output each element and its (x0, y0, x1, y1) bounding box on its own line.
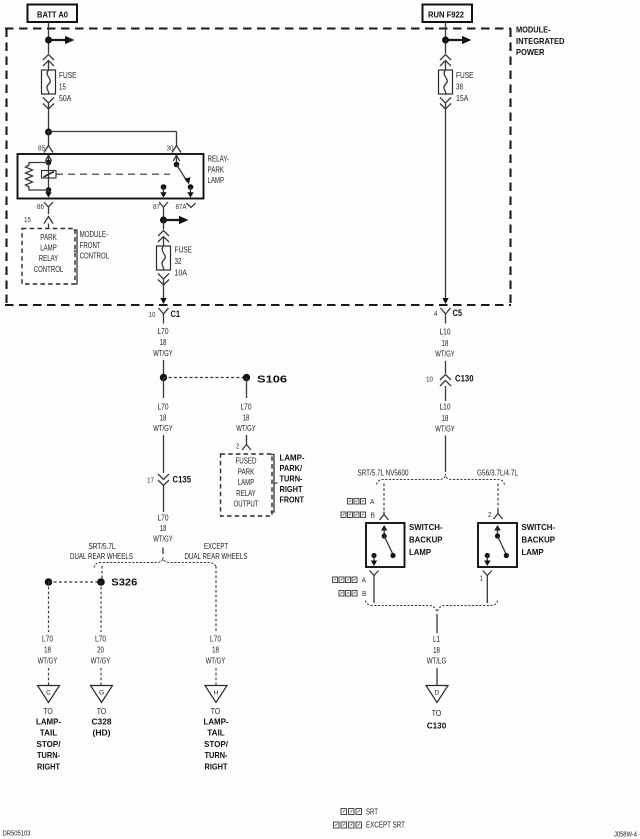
svg-text:FRONT: FRONT (80, 241, 101, 250)
destination label TO C130 (427, 709, 447, 731)
destination label TO LAMP-TAIL STOP/TURN-RIGHT (left) (36, 707, 61, 771)
relay coil (42, 171, 57, 179)
svg-text:RELAY: RELAY (236, 489, 256, 498)
wire BATT A0 down (48, 22, 50, 54)
svg-text:WT/GY: WT/GY (435, 425, 455, 434)
svg-text:DUAL REAR WHEELS: DUAL REAR WHEELS (70, 552, 133, 561)
off-page connector C (38, 686, 60, 703)
wire label L10 18 WT/GY (2) (435, 403, 455, 473)
svg-text:L70: L70 (95, 635, 107, 644)
svg-text:15: 15 (24, 217, 31, 224)
wire label L70 20 WT/GY (to G) (91, 635, 111, 686)
wire label L1 18 WT/LG (427, 635, 447, 685)
pin 2 chevron into right switch (488, 510, 503, 520)
wire label L70 18 WT/GY (left) (153, 403, 173, 474)
svg-text:G: G (99, 690, 104, 697)
svg-text:38: 38 (456, 83, 463, 92)
module FUSED PARK LAMP RELAY OUTPUT (dashed box) (221, 454, 273, 516)
pin chevron into left switch (380, 512, 389, 521)
bracket MODULE-FRONT CONTROL (74, 230, 110, 284)
pin 15 (24, 217, 53, 229)
key squares pin B (4 = EXCEPT SRT) (341, 512, 375, 520)
module box MODULE-INTEGRATED POWER (dashed border) (5, 25, 565, 305)
svg-text:B: B (362, 591, 367, 598)
svg-text:PARK/: PARK/ (280, 463, 303, 473)
svg-text:LAMP-: LAMP- (36, 717, 61, 727)
node RUN F922 (423, 5, 473, 23)
svg-text:WT/GY: WT/GY (435, 350, 455, 359)
pin 85 (38, 146, 53, 153)
svg-text:LAMP-: LAMP- (280, 453, 305, 463)
svg-text:LAMP: LAMP (40, 244, 57, 253)
svg-text:FUSE: FUSE (59, 71, 77, 80)
svg-text:SRT/5.7L: SRT/5.7L (89, 542, 117, 551)
svg-text:L1: L1 (433, 635, 440, 644)
node junction 87 + feed arrow (160, 216, 189, 230)
svg-text:WT/GY: WT/GY (206, 657, 226, 666)
svg-text:18: 18 (433, 646, 440, 655)
svg-text:L70: L70 (158, 327, 170, 336)
svg-text:TO: TO (432, 709, 442, 718)
svg-text:WT/GY: WT/GY (38, 657, 58, 666)
svg-text:LAMP-: LAMP- (204, 717, 229, 727)
svg-text:A: A (362, 578, 367, 585)
svg-text:D: D (435, 690, 440, 697)
svg-text:TO: TO (211, 707, 221, 716)
splice S106 (160, 374, 288, 398)
svg-text:G56/3.7L/4.7L: G56/3.7L/4.7L (477, 468, 519, 477)
svg-text:SRT: SRT (366, 808, 378, 817)
svg-text:20: 20 (97, 646, 104, 655)
svg-text:OUTPUT: OUTPUT (234, 500, 259, 509)
svg-text:L70: L70 (42, 635, 54, 644)
wire g56 branch (497, 484, 499, 510)
svg-text:SWITCH-: SWITCH- (522, 522, 556, 532)
branch label EXCEPT DUAL REAR WHEELS (185, 542, 248, 561)
wire left switch to brace (373, 584, 375, 603)
wire fuse 15 to junction (48, 104, 50, 133)
relay armature dashed link (56, 173, 170, 175)
svg-text:FUSE: FUSE (175, 246, 193, 255)
wire brace to label (436, 614, 438, 633)
svg-text:17: 17 (147, 478, 154, 485)
svg-text:C135: C135 (173, 475, 192, 485)
wire S326 left leg (48, 582, 50, 632)
long wire to C5 + arrow (442, 104, 448, 305)
svg-text:2: 2 (488, 512, 492, 519)
svg-text:L70: L70 (241, 403, 253, 412)
svg-text:87: 87 (153, 204, 160, 211)
branch label G56/3.7L/4.7L (477, 468, 519, 477)
svg-text:10: 10 (149, 312, 156, 319)
svg-text:S326: S326 (111, 578, 137, 589)
switch S2 SWITCH-BACKUP LAMP (right) (478, 522, 555, 567)
svg-text:18: 18 (442, 339, 449, 348)
svg-text:WT/GY: WT/GY (153, 349, 173, 358)
svg-text:LAMP: LAMP (522, 547, 544, 557)
svg-text:DR505103: DR505103 (3, 829, 31, 838)
svg-text:LAMP: LAMP (208, 176, 225, 185)
svg-text:50A: 50A (59, 94, 72, 103)
svg-text:32: 32 (175, 257, 182, 266)
off-page connector H (205, 686, 227, 703)
connector chevrons below fuse 32 (158, 274, 169, 286)
svg-text:STOP/: STOP/ (37, 739, 62, 749)
legend key SRT (3 squares) (341, 808, 378, 817)
relay coil branch (pin 85-86) (45, 155, 51, 197)
svg-text:86: 86 (37, 204, 44, 211)
wire label L70 18 WT/GY (to H) (206, 635, 226, 686)
module PARK LAMP RELAY CONTROL (dashed box) (22, 229, 75, 285)
wire to S326 (101, 566, 103, 579)
wire S326 right leg (100, 582, 102, 632)
connector chevrons below fuse 15 (43, 98, 54, 110)
brace split (transmission) (377, 474, 505, 485)
svg-text:TURN-: TURN- (205, 750, 228, 760)
relay K1 RELAY-PARK LAMP box (18, 154, 230, 199)
wire label L70 18 WT/GY (153, 327, 173, 374)
connector C5 pin 4 (434, 308, 462, 324)
brace join (backup lamp outputs) (366, 601, 498, 612)
connector chevrons above fuse 38 (440, 55, 451, 71)
svg-text:L70: L70 (158, 403, 170, 412)
svg-text:H: H (214, 690, 219, 697)
svg-text:C130: C130 (455, 374, 474, 384)
svg-text:EXCEPT: EXCEPT (204, 542, 228, 551)
svg-text:DUAL REAR WHEELS: DUAL REAR WHEELS (185, 552, 248, 561)
wire srt branch (383, 484, 385, 512)
resistor (relay suppression) (26, 163, 49, 191)
svg-text:RELAY-: RELAY- (208, 155, 230, 164)
svg-text:18: 18 (44, 646, 51, 655)
svg-text:CONTROL: CONTROL (34, 265, 64, 274)
svg-text:PARK: PARK (40, 233, 57, 242)
svg-text:S106: S106 (257, 375, 288, 386)
svg-text:4: 4 (434, 311, 438, 318)
relay switch (pin 30 to 87A) (173, 155, 193, 197)
relay contact 87 (160, 184, 166, 197)
pin 87 (153, 202, 168, 218)
svg-text:2: 2 (236, 444, 240, 451)
svg-text:10A: 10A (175, 269, 188, 278)
svg-text:RELAY: RELAY (39, 254, 59, 263)
svg-text:EXCEPT SRT: EXCEPT SRT (366, 821, 405, 830)
destination label TO C328 (HD) (92, 707, 112, 738)
svg-text:TAIL: TAIL (40, 728, 58, 738)
svg-text:FRONT: FRONT (280, 495, 305, 505)
destination label TO LAMP-TAIL STOP/TURN-RIGHT (right) (204, 707, 229, 771)
switch S1 SWITCH-BACKUP LAMP (left) (366, 522, 443, 567)
svg-text:C: C (46, 690, 51, 697)
svg-text:J058W-4: J058W-4 (614, 830, 637, 839)
svg-text:RIGHT: RIGHT (37, 761, 61, 771)
fuse F15 (FUSE 15 50A) (42, 70, 77, 103)
off-page connector D (426, 686, 448, 703)
branch label SRT/5.7L NV5600 (358, 468, 410, 477)
svg-text:L70: L70 (158, 513, 170, 522)
svg-text:RUN F922: RUN F922 (428, 10, 464, 20)
footer drawing number DR505103 (3, 829, 31, 838)
wire except-dual leg (215, 566, 217, 632)
svg-text:18: 18 (160, 338, 167, 347)
svg-text:INTEGRATED: INTEGRATED (516, 36, 565, 46)
connector chevrons below fuse 38 (440, 98, 451, 110)
svg-text:LAMP: LAMP (238, 478, 255, 487)
svg-text:PARK: PARK (238, 467, 255, 476)
svg-text:TO: TO (43, 707, 53, 716)
svg-text:SWITCH-: SWITCH- (409, 522, 443, 532)
pin 87A (176, 203, 196, 211)
pin 86 (37, 202, 53, 214)
svg-text:RIGHT: RIGHT (205, 761, 229, 771)
wire to border + arrow (160, 280, 166, 305)
node junction dot + feed arrow (left) (45, 36, 75, 44)
pin 2 lamp-park (236, 439, 251, 451)
svg-text:LAMP: LAMP (409, 547, 431, 557)
svg-text:C5: C5 (453, 308, 463, 318)
connector C135 pin 17 (147, 474, 191, 512)
key squares pin A below (4 = EXCEPT SRT) (333, 577, 367, 585)
node junction, branch to pin 30 (45, 129, 177, 146)
svg-text:B: B (371, 513, 376, 520)
svg-text:POWER: POWER (516, 47, 545, 57)
svg-text:15: 15 (59, 83, 67, 92)
pin 1 chevron below right switch (480, 571, 492, 604)
svg-text:10: 10 (426, 377, 433, 384)
connector C1 pin 10 (149, 308, 181, 324)
off-page connector G (91, 686, 113, 703)
bracket LAMP-PARK/TURN-RIGHT FRONT (271, 453, 305, 512)
connector chevrons above fuse 32 (158, 231, 169, 247)
svg-text:WT/LG: WT/LG (427, 657, 447, 666)
svg-text:PARK: PARK (208, 165, 225, 174)
splice S326 (45, 578, 138, 589)
svg-text:L70: L70 (210, 635, 222, 644)
svg-text:87A: 87A (176, 204, 187, 211)
svg-text:FUSED: FUSED (236, 457, 257, 466)
wire label L10 18 WT/GY (435, 328, 455, 374)
node junction dot + feed arrow (right) (442, 36, 472, 44)
svg-text:18: 18 (160, 524, 167, 533)
svg-text:C130: C130 (427, 721, 447, 731)
svg-text:CONTROL: CONTROL (80, 252, 110, 261)
connector C130 pin 10 (426, 374, 474, 402)
svg-text:TURN-: TURN- (280, 474, 303, 484)
key squares pin B below (3 = SRT) (339, 591, 367, 599)
svg-text:18: 18 (243, 414, 250, 423)
svg-text:TURN-: TURN- (37, 750, 60, 760)
svg-text:RIGHT: RIGHT (280, 484, 304, 494)
svg-text:TO: TO (97, 707, 107, 716)
svg-text:18: 18 (442, 414, 449, 423)
svg-text:MODULE-: MODULE- (516, 25, 551, 35)
svg-text:TAIL: TAIL (207, 728, 225, 738)
wire label L70 18 WT/GY (right branch) (236, 403, 256, 441)
svg-text:BACKUP: BACKUP (409, 535, 443, 545)
svg-text:MODULE-: MODULE- (80, 230, 109, 239)
fuse F32 (FUSE 32 10A) (157, 246, 193, 278)
svg-text:SRT/5.7L NV5600: SRT/5.7L NV5600 (358, 468, 410, 477)
connector chevrons above fuse 15 (43, 55, 54, 71)
svg-text:BACKUP: BACKUP (522, 535, 556, 545)
svg-text:C1: C1 (171, 309, 181, 319)
pin 30 (167, 146, 182, 153)
node BATT A0 (28, 5, 78, 23)
fuse F38 (FUSE 38 15A) (439, 70, 474, 103)
svg-text:(HD): (HD) (93, 728, 111, 738)
svg-text:A: A (370, 499, 375, 506)
svg-text:L10: L10 (440, 403, 452, 412)
svg-text:WT/GY: WT/GY (91, 657, 111, 666)
svg-text:FUSE: FUSE (456, 71, 474, 80)
svg-text:STOP/: STOP/ (204, 739, 229, 749)
footer sheet number J058W-4 (614, 830, 637, 839)
svg-text:1: 1 (480, 576, 484, 583)
svg-text:C328: C328 (92, 717, 112, 727)
wire label L70 18 WT/GY (below C135) (153, 513, 173, 554)
svg-text:18: 18 (212, 646, 219, 655)
key squares pin A (3 = SRT) (348, 499, 375, 507)
brace split (dual rear wheels) (94, 557, 216, 568)
legend key EXCEPT SRT (4 squares) (334, 821, 406, 830)
svg-text:15A: 15A (456, 94, 469, 103)
branch label SRT/5.7L DUAL REAR WHEELS (70, 542, 133, 561)
wire RUN F922 down (445, 22, 447, 54)
wire label L70 18 WT/GY (to C) (38, 635, 58, 686)
svg-text:WT/GY: WT/GY (153, 424, 173, 433)
svg-text:WT/GY: WT/GY (236, 424, 256, 433)
svg-text:BATT A0: BATT A0 (37, 10, 68, 20)
pin chevron below left switch (370, 571, 379, 585)
svg-text:18: 18 (160, 414, 167, 423)
svg-text:L10: L10 (440, 328, 452, 337)
svg-text:WT/GY: WT/GY (153, 535, 173, 544)
